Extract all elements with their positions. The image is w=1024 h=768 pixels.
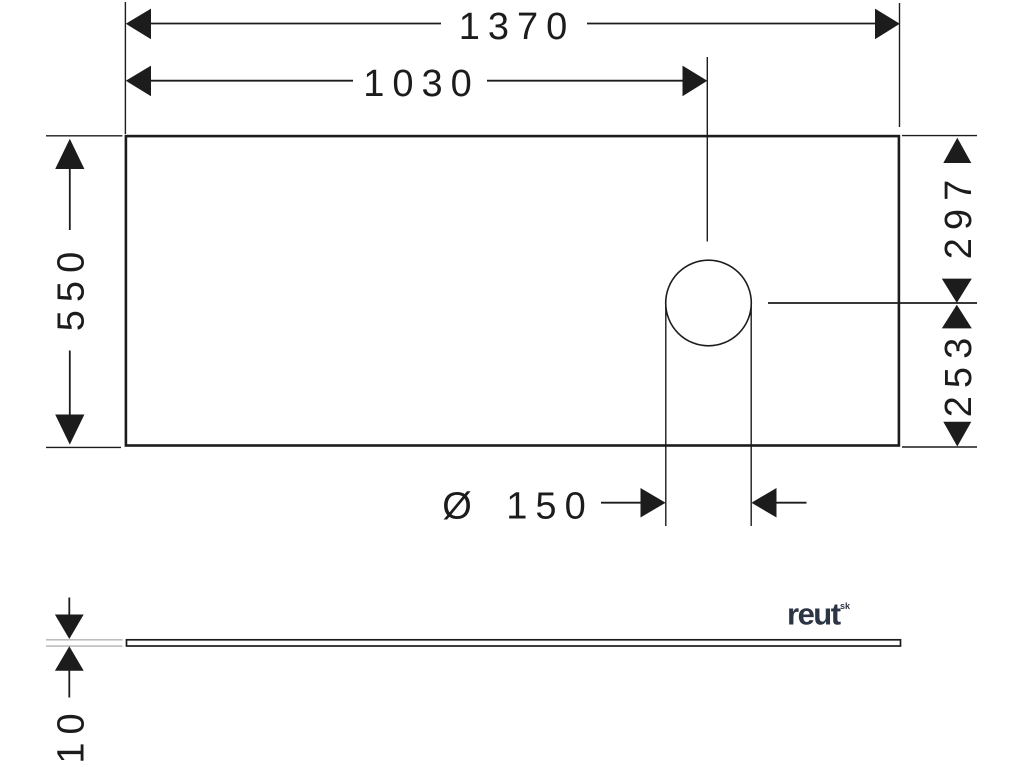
dim 10 upper line xyxy=(68,598,70,618)
dim 1370 line right segment xyxy=(587,23,876,25)
dim 1030 left arrow xyxy=(126,66,151,97)
dim 150 line left segment xyxy=(601,502,642,504)
dim 1030 line left segment xyxy=(149,80,353,82)
svg-text:sk: sk xyxy=(840,601,851,611)
svg-text:1030: 1030 xyxy=(363,63,480,105)
extension line right (x=899.5) xyxy=(899,3,901,127)
svg-text:10: 10 xyxy=(51,705,93,763)
dim 10 lower arrow (pointing up) xyxy=(55,646,84,671)
dim 550 line upper segment xyxy=(69,168,71,230)
dim 1030 right arrow xyxy=(683,66,708,97)
dim 150 line right segment xyxy=(775,502,807,504)
dim 297 up arrow xyxy=(943,138,971,163)
svg-text:150: 150 xyxy=(506,486,593,528)
dim 550 up arrow xyxy=(55,139,84,169)
dim 10 upper arrow (pointing down) xyxy=(55,615,84,640)
extension line left (x=125.4) xyxy=(124,2,126,134)
svg-text:550: 550 xyxy=(51,244,93,331)
dim 550 down arrow xyxy=(55,415,84,445)
extension line 550 bottom xyxy=(46,446,121,448)
extension line hole centre (x=707) xyxy=(706,57,708,242)
dim 1370 line left segment xyxy=(149,23,441,25)
svg-text:253: 253 xyxy=(938,330,980,417)
dim 1030 line right segment xyxy=(487,80,684,82)
leader line hole centre to right dim xyxy=(768,302,977,304)
dim 1370 right arrow xyxy=(875,9,900,40)
panel outline (top view) xyxy=(126,136,899,445)
hole tangent line right (x=751.2) xyxy=(750,303,752,526)
extension line right bottom (253) xyxy=(902,446,977,448)
svg-text:297: 297 xyxy=(938,172,980,259)
svg-text:Ø: Ø xyxy=(442,486,480,528)
dim 1370 left arrow xyxy=(126,9,151,40)
dim 550 line lower segment xyxy=(69,351,71,417)
dim 297 lower arrow (down, bowtie top) xyxy=(942,279,972,303)
dim 150 left arrow (pointing right) xyxy=(641,488,666,518)
hole tangent line left (x=665.8) xyxy=(665,303,667,526)
extension line right top (297) xyxy=(902,135,977,137)
extension line 10 top (grey) xyxy=(46,639,123,641)
hole circle xyxy=(666,260,752,346)
extension line 10 bottom (grey) xyxy=(46,645,123,647)
dim 150 right arrow (pointing left) xyxy=(751,488,776,518)
svg-text:1370: 1370 xyxy=(459,6,576,48)
svg-text:reut: reut xyxy=(787,597,841,632)
dim 253 down arrow xyxy=(943,422,971,447)
extension line 550 top xyxy=(46,135,122,137)
dim 253 upper arrow (up, bowtie bottom) xyxy=(942,305,972,329)
dim 10 lower line xyxy=(68,669,70,698)
panel side view (thin plate) xyxy=(127,640,901,646)
